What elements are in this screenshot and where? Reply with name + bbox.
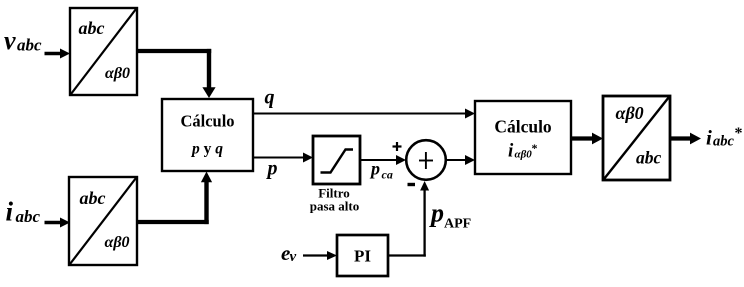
label i_abc xyxy=(6,197,41,227)
block high-pass filter (saturation curve symbol) xyxy=(313,136,360,184)
svg-text:abc: abc xyxy=(16,207,41,226)
svg-text:abc: abc xyxy=(636,148,662,168)
label v_abc xyxy=(4,26,42,55)
svg-text:αβ0: αβ0 xyxy=(105,65,130,82)
svg-text:p: p xyxy=(429,199,444,228)
svg-text:abc: abc xyxy=(80,188,106,208)
node label p_ca xyxy=(369,159,393,182)
svg-text:abc: abc xyxy=(79,18,105,38)
svg-text:αβ0: αβ0 xyxy=(105,234,130,251)
block PI controller xyxy=(337,235,388,276)
wire: output arrow i_abc* (thick) xyxy=(670,133,701,145)
svg-text:abc: abc xyxy=(713,134,735,150)
svg-text:i: i xyxy=(508,141,514,162)
svg-text:v: v xyxy=(4,26,16,55)
block Calculo i_alphabeta0* xyxy=(475,101,571,174)
svg-text:abc: abc xyxy=(17,36,42,55)
wire: Calculo i output to inverse transform (thick arrow) xyxy=(571,133,603,145)
wire: voltage transform to Calculo pq (thick, right then down, arrowhead) xyxy=(137,49,216,98)
block Calculo p y q xyxy=(162,99,253,171)
wire: i_abc input arrow xyxy=(45,218,71,228)
wire: p output line with arrowhead into filter xyxy=(253,153,313,163)
svg-text:αβ0: αβ0 xyxy=(616,103,644,123)
svg-text:*: * xyxy=(532,141,538,155)
block abc->alphabeta0 (current transform) xyxy=(69,177,137,265)
svg-text:i: i xyxy=(706,126,712,150)
label e_v xyxy=(281,241,297,265)
svg-text:Cálculo: Cálculo xyxy=(494,117,552,137)
svg-text:i: i xyxy=(6,197,14,227)
block abc->alphabeta0 (voltage transform) xyxy=(70,8,137,95)
block alphabeta0->abc (inverse transform) xyxy=(603,96,670,180)
summing junction circle with plus xyxy=(406,140,446,180)
svg-text:ca: ca xyxy=(382,168,393,182)
wire: e_v input arrow to PI xyxy=(303,251,337,260)
label Filtro pasa alto xyxy=(310,186,359,214)
svg-text:p y q: p y q xyxy=(190,141,223,158)
wire: filter output to summing junction with arrowhead xyxy=(360,155,406,165)
wire: PI output right then up into summing junction with arrowhead xyxy=(388,181,429,257)
svg-text:p: p xyxy=(369,159,380,179)
wire: v_abc input arrow xyxy=(45,49,71,59)
svg-text:v: v xyxy=(290,249,297,265)
sign plus (at summing junction input) xyxy=(393,142,402,151)
svg-text:APF: APF xyxy=(444,217,471,232)
wire: summing junction output to Calculo i with arrowhead xyxy=(446,155,476,165)
svg-text:PI: PI xyxy=(354,247,371,266)
label i_abc* xyxy=(706,125,743,150)
svg-text:*: * xyxy=(735,125,743,142)
wire: q output line with arrowhead into Calculo i xyxy=(253,109,475,119)
wire: current transform to Calculo pq (thick, right then up, arrowhead) xyxy=(137,172,212,225)
node label p_APF xyxy=(429,199,471,232)
svg-text:p: p xyxy=(266,158,278,180)
svg-text:q: q xyxy=(265,87,275,109)
svg-text:Cálculo: Cálculo xyxy=(180,112,234,131)
svg-text:αβ0: αβ0 xyxy=(515,149,533,161)
sign minus (at summing junction bottom input) xyxy=(408,183,416,186)
svg-text:pasa alto: pasa alto xyxy=(310,199,359,214)
